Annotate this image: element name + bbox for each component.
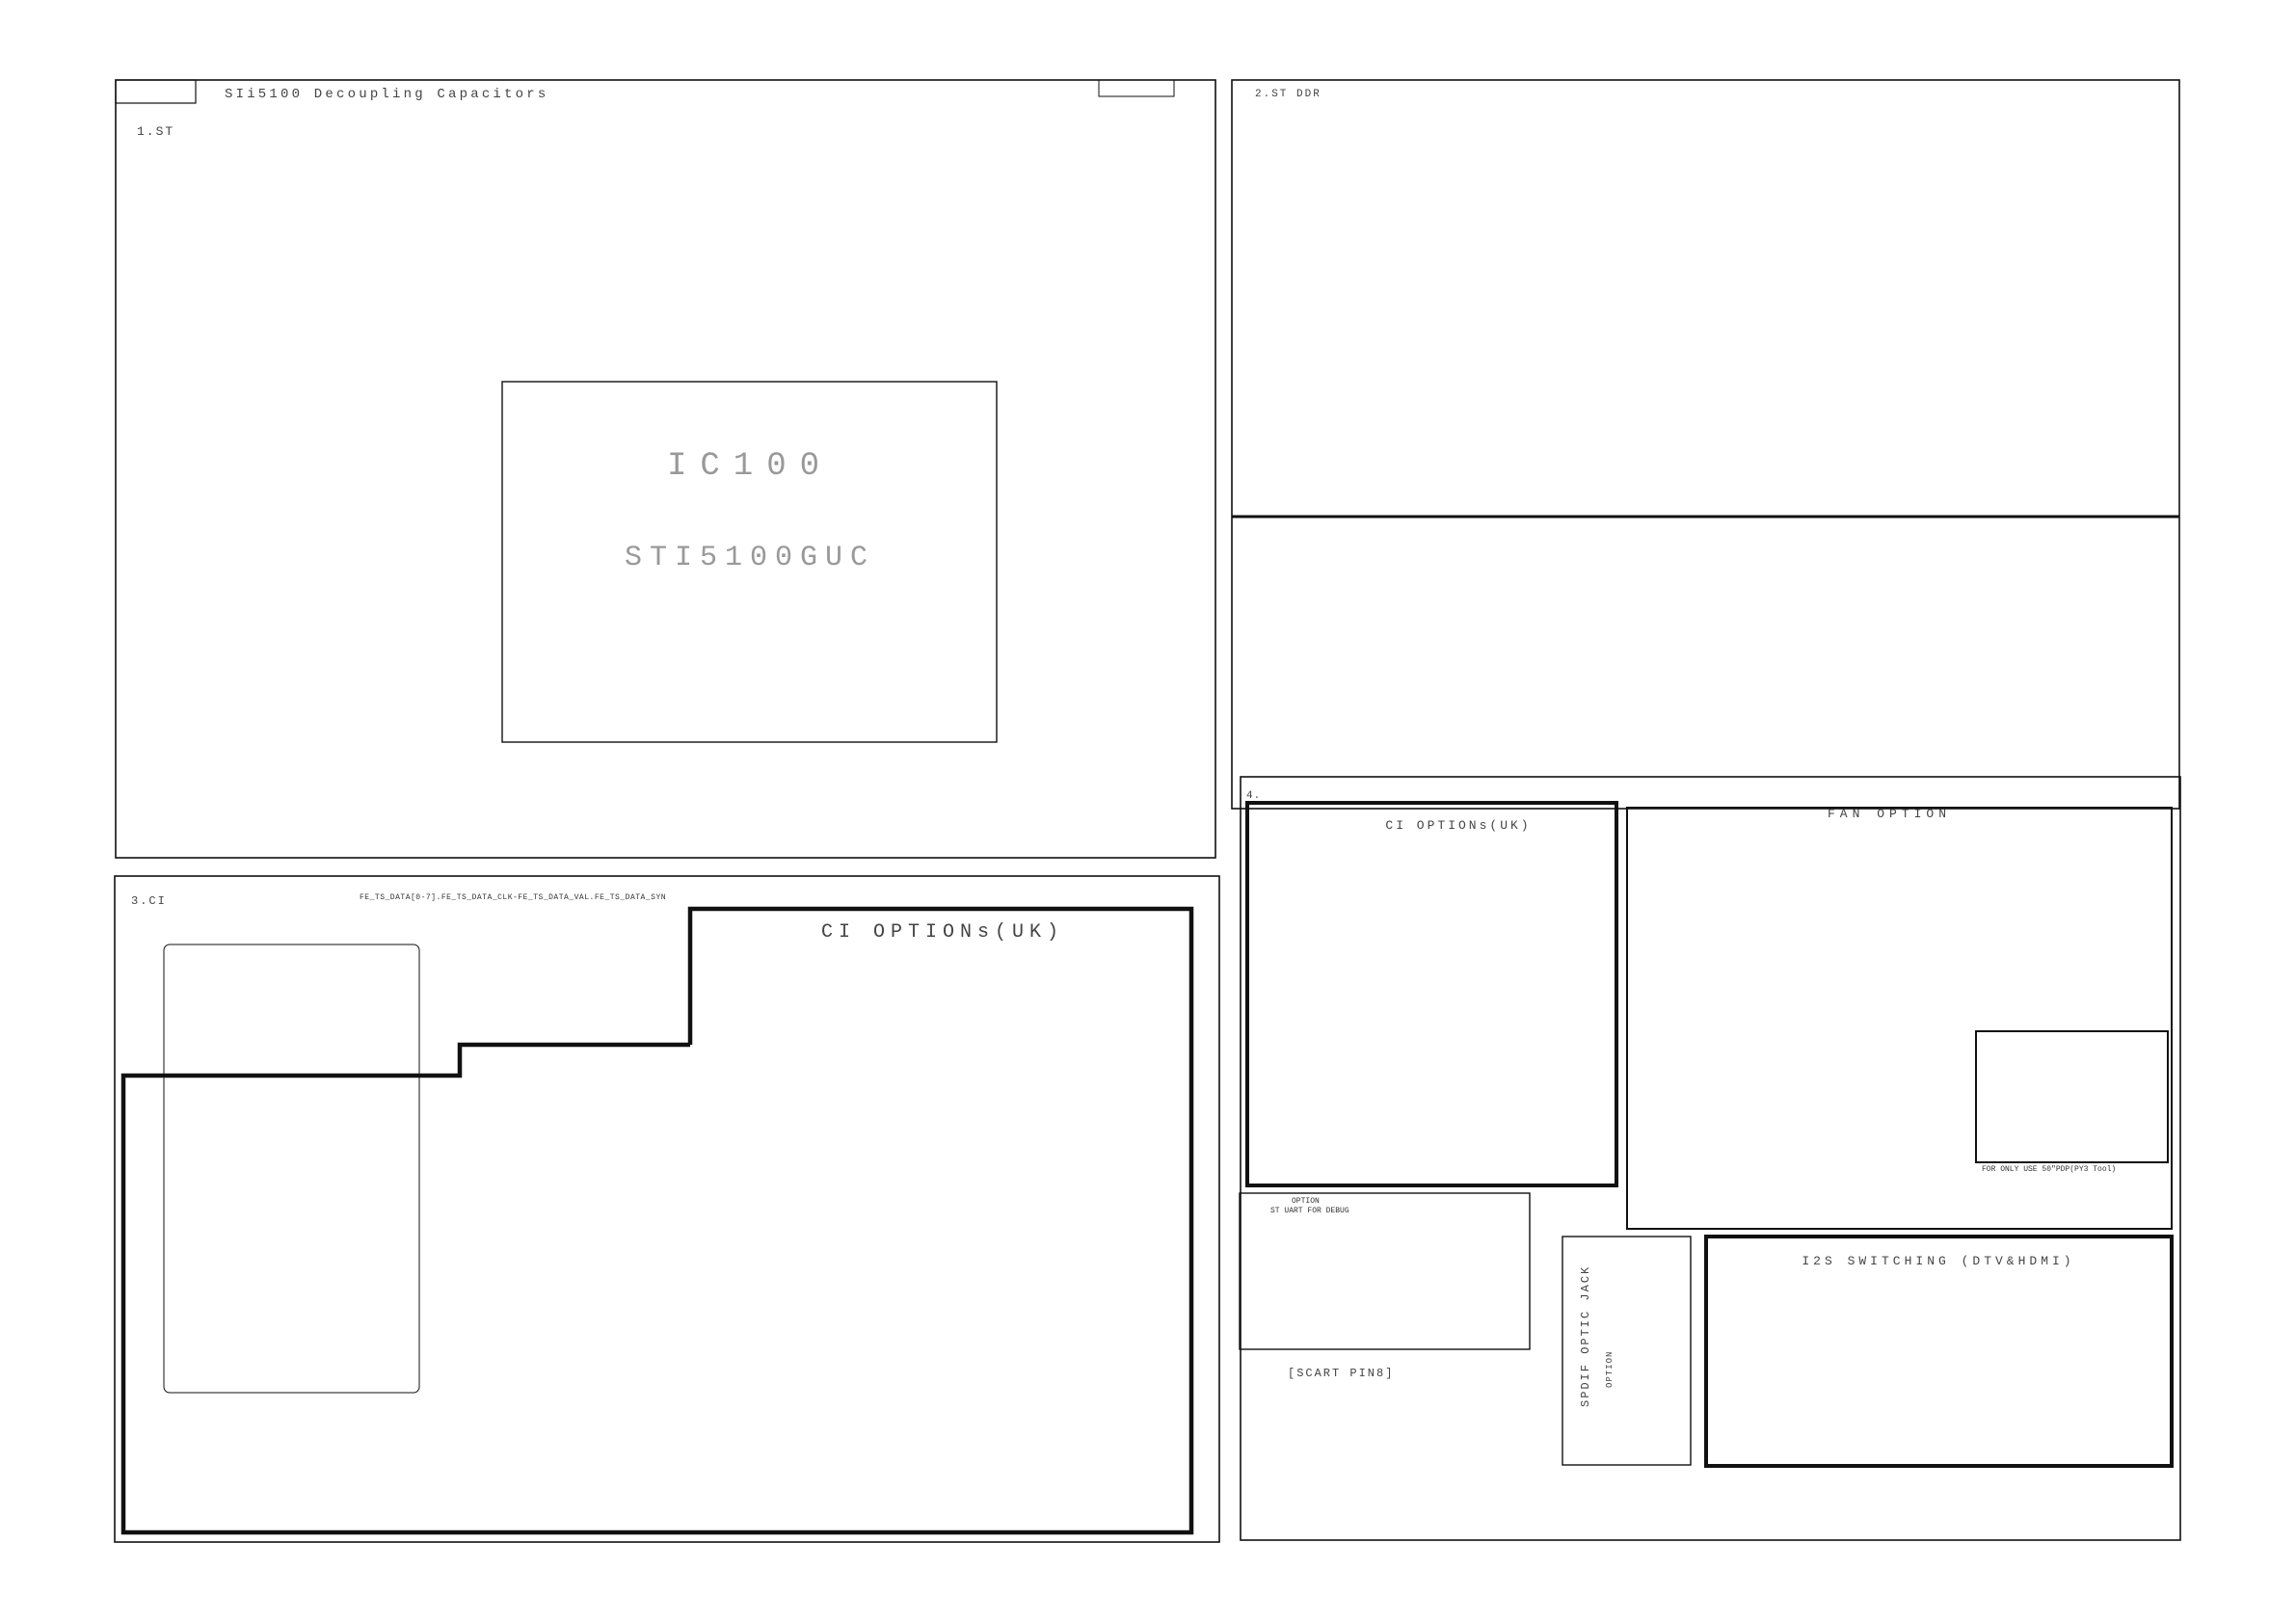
svg-text:I2S SWITCHING (DTV&HDMI): I2S SWITCHING (DTV&HDMI) [1802,1254,2074,1268]
OPTION ST UART FOR DEBUG box [1240,1193,1530,1349]
SPDIF OPTIC JACK box [1562,1237,1691,1465]
svg-text:3.CI: 3.CI [131,894,167,908]
FAN OPTION box [1627,808,2172,1229]
section 2 frame: DDR sheet border [1232,80,2179,809]
svg-text:IC100: IC100 [667,448,833,485]
CI OPTIONs(UK) thick box (section 4) [1247,803,1616,1185]
svg-text:CI OPTIONs(UK): CI OPTIONs(UK) [1385,818,1531,833]
svg-text:FAN OPTION: FAN OPTION [1828,807,1951,821]
svg-text:OPTION: OPTION [1605,1351,1615,1388]
divider line between DDR and boot flash [1232,516,2179,519]
svg-text:SPDIF OPTIC JACK: SPDIF OPTIC JACK [1579,1265,1592,1407]
section 1 frame: SIi5100 decoupling / STi5100 main IC sheet border [116,80,1215,858]
svg-text:SIi5100 Decoupling Capacitors: SIi5100 Decoupling Capacitors [225,87,548,102]
section 1 top-right small box [1099,80,1174,96]
I2S SWITCHING thick box [1706,1237,2172,1466]
section 4 frame border [1241,777,2180,1540]
svg-text:OPTION: OPTION [1292,1197,1320,1206]
svg-text:STI5100GUC: STI5100GUC [625,542,875,574]
svg-text:FE_TS_DATA[0-7].FE_TS_DATA_CLK: FE_TS_DATA[0-7].FE_TS_DATA_CLK-FE_TS_DAT… [360,893,666,902]
op IC100 STI5100GUC main IC body [502,382,997,742]
FOR ONLY USE 50 PDP box [1976,1031,2168,1162]
thin rounded box around TS buffers [164,945,419,1393]
svg-text:4.: 4. [1246,790,1261,802]
section 1 title block box [116,80,196,103]
svg-text:2.ST DDR: 2.ST DDR [1255,89,1322,100]
svg-text:ST UART FOR DEBUG: ST UART FOR DEBUG [1270,1207,1349,1215]
svg-text:1.ST: 1.ST [137,124,174,139]
CI OPTIONS UK thick border (section 3) [123,909,1191,1532]
svg-text:[SCART PIN8]: [SCART PIN8] [1288,1367,1394,1380]
section 3 frame: CI sheet border [115,876,1219,1542]
svg-text:CI OPTIONs(UK): CI OPTIONs(UK) [821,921,1064,944]
svg-text:FOR ONLY USE 50"PDP(PY3 Tool): FOR ONLY USE 50"PDP(PY3 Tool) [1982,1165,2116,1174]
